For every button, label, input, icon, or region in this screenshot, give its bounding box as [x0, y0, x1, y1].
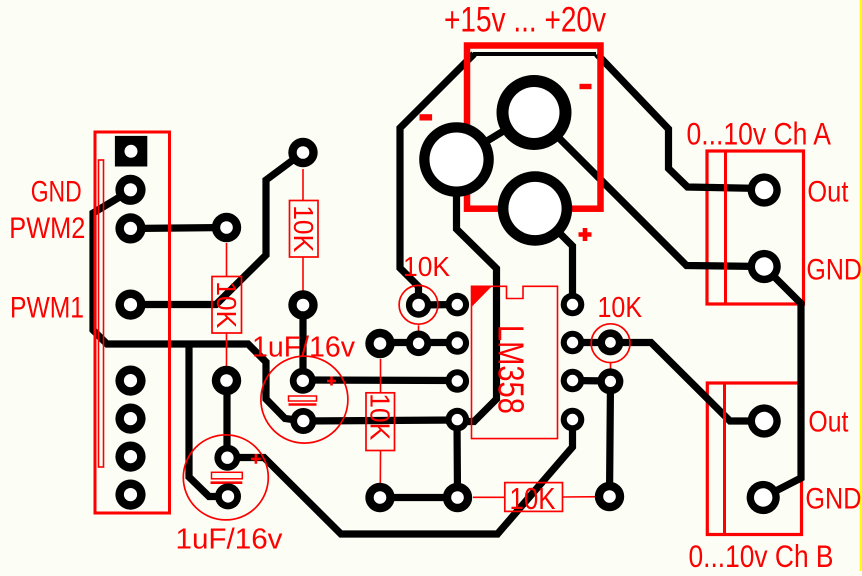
wire B1 to B2 [457, 113, 535, 160]
svg-text:GND: GND [806, 253, 862, 286]
wire C1 plus pad right to U1 pin3 [303, 376, 458, 384]
wire U1 pin6 to P2 pad [573, 377, 611, 385]
pad ChA Out [748, 173, 781, 206]
pad J1-10 [115, 480, 145, 510]
capacitor C3 outline [183, 435, 268, 520]
pad R1 bottom [288, 290, 317, 319]
wire PWM1 zigzag up to R1 top pad [131, 153, 304, 305]
pad J1-1 square [115, 136, 147, 167]
pad C3 minus [215, 483, 241, 509]
pad U1 pin2 [446, 331, 470, 355]
pad P1 top [406, 292, 431, 317]
svg-text:PWM2: PWM2 [9, 212, 85, 245]
svg-text:1uF/16v: 1uF/16v [252, 331, 356, 363]
wire B3 to U1 pin8 [535, 209, 573, 305]
trimmer P1 outline [399, 285, 438, 324]
svg-text:LM358: LM358 [491, 325, 532, 414]
pad U1 pin4 [446, 408, 470, 432]
wire B1 down to U1 pin4 [457, 160, 497, 422]
svg-text:Out: Out [808, 406, 849, 439]
svg-text:10K: 10K [211, 281, 242, 328]
wire R1 bottom pad to C1 plus pad [299, 305, 306, 380]
wire GND from pad J1-2 down and right to C1 minus pad [93, 191, 457, 422]
pad bus R5 right [595, 482, 624, 511]
pad J1-5 PWM1 [115, 290, 145, 320]
pad U1 pin5 [561, 408, 585, 432]
connector J1 outline [95, 132, 170, 513]
pad U1 pin3 [446, 369, 470, 393]
pad J1-7 [115, 366, 145, 396]
X1 minus mark near B2 [580, 84, 592, 89]
svg-text:10K: 10K [598, 292, 643, 324]
svg-text:GND: GND [31, 175, 82, 208]
X1 minus mark near B1 [420, 114, 433, 120]
wire U1 pin7 to P2 [573, 339, 611, 346]
pad U1 pin6 [561, 369, 585, 393]
wire row pads to U1 pin2 [381, 339, 458, 346]
wire supply left branch down to P1 [400, 54, 474, 305]
svg-text:10K: 10K [510, 481, 556, 516]
pad mid row [406, 331, 432, 357]
connector ChA inner line [724, 151, 727, 304]
pad J1-2 GND [115, 175, 145, 205]
svg-text:GND: GND [805, 482, 861, 515]
capacitor C1 outline [261, 356, 348, 443]
yellow board edge stripe [860, 0, 862, 571]
pad ChA GND [748, 250, 781, 283]
svg-text:10K: 10K [364, 393, 395, 440]
resistor R2 outline [212, 277, 242, 334]
capacitor C1 plus mark [327, 377, 336, 386]
pad bus R4 bottom [365, 483, 394, 512]
wire P2 wiper to ChB Out pad [611, 343, 765, 422]
wire supply right branch to ChA Out pad [597, 54, 764, 189]
pad B3 power [498, 171, 572, 245]
pad bus R5 left [443, 483, 472, 512]
wire P1 wiper to U1 pin1 [419, 301, 458, 309]
pad ChB Out [748, 404, 781, 437]
svg-text:10K: 10K [403, 251, 450, 282]
connector ChB outline [707, 383, 801, 535]
resistor R5 outline [505, 483, 563, 512]
pad R1 top [288, 138, 317, 167]
resistor R4 outline [366, 393, 395, 451]
trimmer P2 outline [591, 324, 630, 363]
svg-text:Out: Out [807, 176, 849, 209]
pad U1 pin8 [561, 293, 585, 317]
connector ChA outline [707, 151, 804, 304]
pad node R2 top [212, 213, 241, 242]
wire PWM2 to node pad [131, 228, 227, 229]
pad C1 plus [290, 368, 316, 394]
pad R4 top [365, 329, 394, 358]
connector J1 inner outline [99, 160, 104, 467]
pad B2 power [497, 75, 572, 150]
wire GND branch down to C3 minus pad [189, 344, 228, 497]
pad J1-3 PWM2 [115, 213, 145, 243]
pad ChB GND [747, 481, 780, 514]
pad J1-8 [115, 404, 145, 434]
capacitor C3 plus mark [251, 454, 261, 464]
wire ChA GND down to ChB GND pad [763, 267, 801, 498]
pad J1-9 [115, 442, 145, 472]
power terminal X1 outline [467, 46, 601, 209]
X1 plus mark [579, 228, 592, 241]
pad node R2 bottom [212, 366, 241, 395]
pad P2 top [597, 329, 623, 355]
svg-text:+15v ... +20v: +15v ... +20v [444, 1, 606, 40]
svg-text:PWM1: PWM1 [10, 292, 84, 325]
wire P2 pad down to bus pad [610, 381, 611, 497]
svg-text:1uF/16v: 1uF/16v [176, 524, 283, 556]
wire C3 plus pad to bottom bus up to U1 pin5 [228, 420, 573, 535]
pad B1 power [419, 122, 494, 197]
svg-text:10K: 10K [288, 205, 319, 252]
connector ChB inner line [723, 383, 726, 535]
wire thin top supply trace [473, 52, 596, 56]
pad U1 pin7 [561, 331, 585, 355]
pad U1 pin1 [446, 293, 470, 317]
wire B2 diagonal to ChA GND pad [534, 113, 764, 267]
svg-text:0...10v Ch A: 0...10v Ch A [687, 116, 832, 152]
op-amp U1 pin1 triangle [471, 287, 492, 308]
svg-text:0...10v Ch B: 0...10v Ch B [689, 538, 834, 571]
wire node pad down to C3 plus pad [223, 381, 230, 458]
pad C1 minus [290, 408, 316, 434]
resistor R1 outline [290, 201, 319, 258]
pad C3 plus [214, 445, 240, 471]
op-amp U1 outline with notch [472, 286, 558, 438]
wire bottom bus pads [380, 420, 458, 498]
pad P2 bottom [597, 368, 623, 394]
